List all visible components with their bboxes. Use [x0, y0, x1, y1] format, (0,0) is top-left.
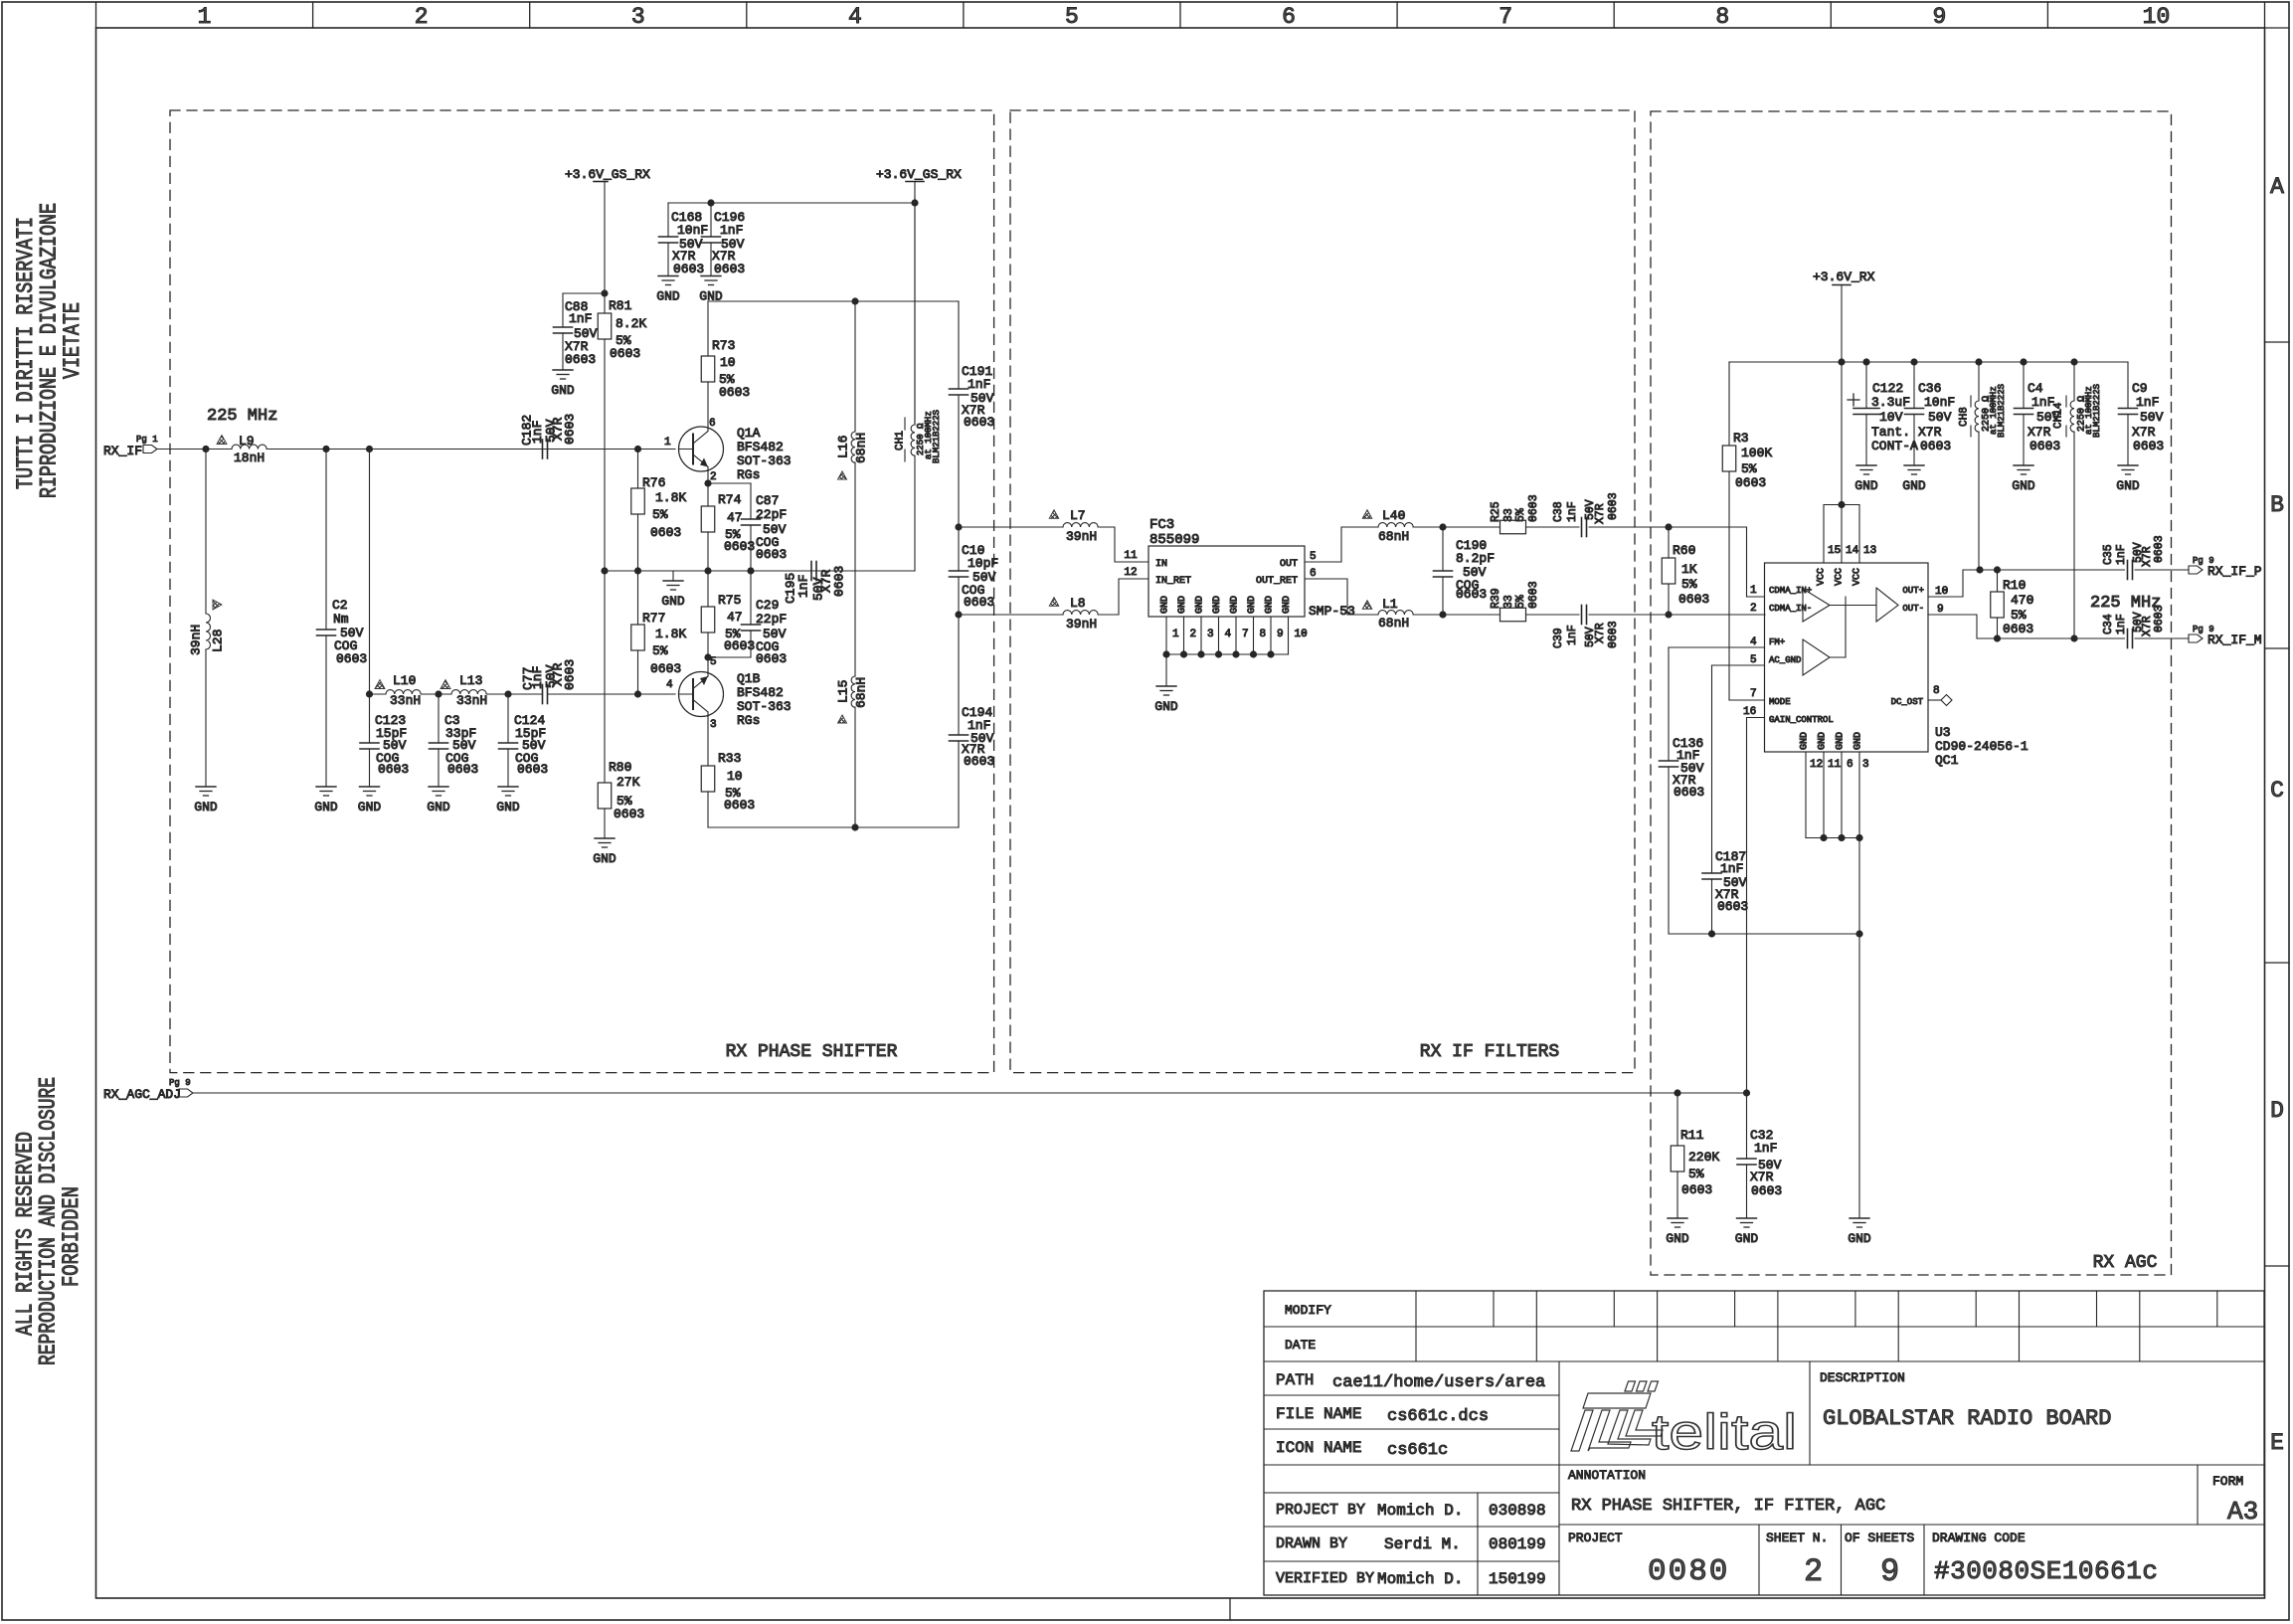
- svg-text:0603: 0603: [1678, 592, 1709, 607]
- capacitor C3: [430, 694, 479, 787]
- svg-text:0603: 0603: [2153, 605, 2166, 632]
- svg-text:0603: 0603: [565, 352, 596, 367]
- svg-text:RX_AGC_ADJ: RX_AGC_ADJ: [103, 1087, 181, 1102]
- capacitor C4: [2015, 362, 2061, 465]
- inductor L13: [441, 673, 487, 708]
- svg-text:6: 6: [1847, 759, 1853, 771]
- inductor L1: [1362, 597, 1413, 631]
- svg-text:1nF: 1nF: [2031, 395, 2054, 410]
- svg-text:BLM21B222S: BLM21B222S: [932, 410, 942, 463]
- svg-text:X7R: X7R: [2132, 425, 2156, 440]
- svg-text:GND: GND: [2116, 478, 2140, 493]
- capacitor C190: [1434, 527, 1496, 615]
- svg-text:0603: 0603: [1527, 494, 1540, 522]
- row letters: [2270, 174, 2284, 1456]
- svg-text:PROJECT BY: PROJECT BY: [1276, 1502, 1365, 1519]
- svg-text:8: 8: [1715, 4, 1729, 30]
- svg-text:0603: 0603: [517, 762, 548, 777]
- svg-text:68nH: 68nH: [853, 677, 868, 708]
- wire U3 pin4 FM+: [1669, 636, 1765, 648]
- svg-text:RX AGC: RX AGC: [2093, 1253, 2158, 1273]
- svg-text:Serdi M.: Serdi M.: [1384, 1535, 1461, 1553]
- op-amp U3: [1765, 563, 1929, 752]
- svg-text:0603: 0603: [831, 566, 846, 597]
- svg-text:RX_IF_P: RX_IF_P: [2207, 564, 2262, 579]
- svg-text:OF SHEETS: OF SHEETS: [1845, 1531, 1914, 1545]
- svg-text:A3: A3: [2227, 1497, 2258, 1527]
- capacitor C194: [950, 615, 995, 827]
- svg-text:68nH: 68nH: [1378, 529, 1409, 544]
- svg-text:33nH: 33nH: [456, 693, 487, 708]
- ferrite bead CH1: [895, 197, 942, 571]
- svg-text:GND: GND: [1247, 596, 1258, 614]
- capacitor C122: [1848, 362, 1918, 465]
- svg-text:5: 5: [1065, 4, 1079, 30]
- svg-text:27K: 27K: [617, 775, 640, 790]
- wire VCC bracket: [1824, 362, 1876, 563]
- svg-text:10: 10: [727, 769, 743, 784]
- ground C124: [496, 787, 520, 814]
- inductor L28: [188, 450, 225, 788]
- svg-text:220K: 220K: [1688, 1150, 1719, 1165]
- resistor R3: [1722, 362, 1772, 700]
- svg-text:1nF: 1nF: [968, 377, 990, 392]
- svg-text:10nF: 10nF: [1924, 395, 1955, 410]
- resistor R73: [701, 338, 750, 427]
- svg-text:ANNOTATION: ANNOTATION: [1568, 1468, 1646, 1483]
- svg-text:GND: GND: [496, 800, 520, 814]
- svg-text:CH14: CH14: [2053, 402, 2065, 429]
- RX PHASE SHIFTER dashed box: [170, 110, 994, 1073]
- ferrite bead CH14: [2053, 362, 2102, 638]
- svg-text:1K: 1K: [1681, 562, 1697, 577]
- inductor L7: [1049, 508, 1098, 544]
- svg-text:BFS482: BFS482: [737, 440, 784, 454]
- svg-text:0603: 0603: [1735, 475, 1766, 490]
- transistor Q1A: [664, 418, 792, 483]
- capacitor C34 series: [2102, 605, 2189, 647]
- svg-text:DC_OST: DC_OST: [1891, 697, 1924, 707]
- svg-text:+3.6V_GS_RX: +3.6V_GS_RX: [565, 167, 650, 182]
- svg-text:L1: L1: [1382, 597, 1398, 612]
- svg-text:GND: GND: [1264, 596, 1275, 614]
- svg-text:C9: C9: [2132, 381, 2148, 396]
- svg-text:225 MHz: 225 MHz: [2090, 594, 2161, 613]
- svg-text:7: 7: [1242, 629, 1249, 640]
- svg-text:GND: GND: [1835, 732, 1846, 750]
- svg-text:RGs: RGs: [737, 713, 760, 728]
- svg-text:RGs: RGs: [737, 467, 760, 482]
- svg-text:A: A: [2270, 174, 2284, 200]
- svg-text:BLM21B222S: BLM21B222S: [1997, 384, 2007, 438]
- svg-text:REPRODUCTION AND DISCLOSURE: REPRODUCTION AND DISCLOSURE: [36, 1077, 62, 1365]
- svg-text:R77: R77: [642, 611, 665, 626]
- svg-text:C: C: [2270, 778, 2284, 804]
- capacitor C124: [499, 694, 549, 787]
- svg-text:1: 1: [1750, 585, 1757, 597]
- ground mid node: [661, 571, 685, 609]
- svg-text:C34: C34: [2102, 614, 2115, 634]
- svg-text:1nF: 1nF: [2115, 544, 2128, 565]
- capacitor C87: [708, 483, 787, 571]
- svg-text:GND: GND: [1154, 699, 1178, 714]
- svg-text:5%: 5%: [2011, 608, 2027, 623]
- svg-text:FM+: FM+: [1769, 637, 1785, 647]
- svg-text:470: 470: [2011, 593, 2033, 608]
- capacitor C88: [554, 293, 606, 370]
- resistor R39: [1490, 581, 1579, 621]
- svg-text:5%: 5%: [1741, 461, 1757, 476]
- inductor L16: [835, 301, 868, 571]
- svg-text:5%: 5%: [1514, 508, 1527, 522]
- svg-text:OUT+: OUT+: [1902, 586, 1924, 596]
- ground C4: [2012, 465, 2035, 493]
- svg-text:cae11/home/users/area: cae11/home/users/area: [1332, 1373, 1545, 1392]
- inductor L40: [1362, 508, 1413, 544]
- ground R80: [593, 838, 617, 866]
- svg-text:GND: GND: [1735, 1231, 1759, 1246]
- capacitor C36: [1905, 362, 1956, 465]
- svg-text:IN: IN: [1155, 559, 1167, 570]
- connector RX_IF_M: [2189, 625, 2262, 647]
- wire RX_AGC_ADJ: [193, 1089, 1750, 1096]
- svg-text:CH1: CH1: [895, 431, 907, 451]
- svg-text:12: 12: [1124, 567, 1137, 579]
- ground C123: [358, 787, 382, 814]
- svg-text:BLM21B222S: BLM21B222S: [2092, 384, 2102, 438]
- svg-text:0603: 0603: [2133, 439, 2164, 453]
- svg-text:D: D: [2270, 1098, 2284, 1124]
- svg-text:11: 11: [1124, 550, 1138, 562]
- svg-text:0603: 0603: [562, 659, 577, 690]
- title block grid: [1264, 1291, 2264, 1595]
- connector RX_AGC_ADJ: [103, 1078, 193, 1102]
- svg-text:10: 10: [2143, 4, 2171, 30]
- ground FC3: [1154, 654, 1178, 714]
- svg-text:1: 1: [1172, 629, 1179, 640]
- svg-text:L13: L13: [459, 673, 482, 688]
- svg-text:5: 5: [1310, 551, 1317, 563]
- power +3.6V_GS_RX right: [876, 167, 962, 425]
- IF filter FC3: [1148, 517, 1305, 617]
- svg-text:3: 3: [710, 719, 717, 731]
- transistor Q1B: [666, 653, 792, 731]
- ground U3: [1848, 1218, 1871, 1246]
- svg-text:FILE NAME: FILE NAME: [1276, 1405, 1361, 1423]
- net label 225 MHz: [207, 407, 277, 426]
- capacitor C2: [317, 450, 368, 788]
- svg-text:15: 15: [1828, 545, 1841, 557]
- svg-text:0603: 0603: [1681, 1182, 1712, 1197]
- svg-text:U3: U3: [1935, 725, 1951, 740]
- RX AGC dashed box: [1651, 111, 2172, 1275]
- svg-text:0080: 0080: [1648, 1554, 1729, 1589]
- svg-text:5%: 5%: [652, 643, 668, 658]
- svg-text:ICON NAME: ICON NAME: [1276, 1439, 1361, 1457]
- svg-text:L10: L10: [393, 673, 416, 688]
- wire L40 to R25: [1413, 523, 1499, 530]
- svg-text:47: 47: [727, 510, 743, 525]
- svg-text:IN_RET: IN_RET: [1155, 576, 1191, 587]
- svg-text:2: 2: [1750, 603, 1757, 615]
- capacitor C182 series: [519, 414, 577, 458]
- svg-text:0603: 0603: [610, 346, 640, 361]
- U3 ground pins: [1799, 732, 1868, 934]
- svg-text:X7R: X7R: [1594, 503, 1607, 524]
- capacitor C32: [1737, 1093, 1782, 1218]
- svg-text:10V: 10V: [1879, 410, 1903, 425]
- svg-text:VIETATE: VIETATE: [60, 302, 86, 379]
- svg-text:R60: R60: [1673, 543, 1695, 558]
- svg-text:12: 12: [1810, 759, 1823, 771]
- svg-text:#30080SE10661c: #30080SE10661c: [1934, 1556, 2158, 1586]
- left copyright text english: [13, 1077, 86, 1365]
- resistor R75: [701, 571, 755, 657]
- svg-text:GND: GND: [1177, 596, 1188, 614]
- ground C36: [1902, 465, 1926, 493]
- svg-text:0603: 0603: [1527, 581, 1540, 609]
- power +3.6V_RX: [1813, 270, 1875, 362]
- svg-text:080199: 080199: [1489, 1535, 1546, 1553]
- svg-text:7: 7: [1750, 688, 1757, 700]
- svg-text:RX_IF_M: RX_IF_M: [2207, 632, 2262, 647]
- ground L28: [194, 787, 218, 814]
- capacitor C29: [708, 571, 787, 666]
- svg-text:CONT-A: CONT-A: [1871, 439, 1918, 453]
- svg-text:030898: 030898: [1489, 1502, 1546, 1520]
- wire collector rail: [708, 297, 959, 356]
- svg-text:33nH: 33nH: [390, 693, 421, 708]
- svg-text:R39: R39: [1490, 588, 1502, 609]
- svg-text:1nF: 1nF: [795, 575, 810, 598]
- svg-text:0603: 0603: [1751, 1183, 1782, 1198]
- svg-text:DESCRIPTION: DESCRIPTION: [1820, 1370, 1905, 1385]
- connector RX_IF_P: [2189, 556, 2262, 579]
- svg-text:R73: R73: [712, 338, 735, 353]
- svg-text:X7R: X7R: [1594, 623, 1607, 643]
- svg-text:0603: 0603: [378, 762, 409, 777]
- svg-text:R75: R75: [718, 593, 741, 608]
- svg-text:0603: 0603: [2029, 439, 2060, 453]
- svg-text:DRAWING CODE: DRAWING CODE: [1932, 1531, 2026, 1545]
- svg-text:cs661c.dcs: cs661c.dcs: [1387, 1407, 1489, 1426]
- capacitor C77 series: [520, 659, 577, 704]
- svg-text:4: 4: [848, 4, 862, 30]
- svg-text:0603: 0603: [1920, 439, 1951, 453]
- svg-text:MODE: MODE: [1769, 697, 1791, 707]
- svg-text:0603: 0603: [2153, 535, 2166, 563]
- capacitor C196: [702, 203, 746, 276]
- svg-text:5%: 5%: [1681, 577, 1697, 592]
- svg-text:Pg 9: Pg 9: [169, 1078, 191, 1088]
- resistor R25: [1490, 494, 1579, 533]
- wire U3 pin10 OUT+: [1928, 566, 2125, 598]
- svg-text:E: E: [2270, 1430, 2284, 1456]
- wire IF line M to L8: [959, 614, 1063, 616]
- column numbers: [198, 4, 2171, 30]
- svg-text:OUT_RET: OUT_RET: [1256, 576, 1298, 587]
- svg-text:FORBIDDEN: FORBIDDEN: [59, 1186, 85, 1287]
- svg-text:R3: R3: [1733, 431, 1749, 446]
- svg-text:CDMA_IN-: CDMA_IN-: [1769, 604, 1812, 614]
- svg-text:Nm: Nm: [333, 612, 349, 627]
- svg-text:0603: 0603: [964, 754, 994, 769]
- RX IF FILTERS dashed box: [1010, 110, 1635, 1073]
- svg-text:2: 2: [415, 4, 429, 30]
- capacitor C10: [950, 523, 999, 618]
- capacitor C168: [659, 203, 709, 276]
- svg-text:GND: GND: [656, 289, 680, 304]
- svg-text:C35: C35: [2102, 544, 2115, 565]
- svg-text:0603: 0603: [724, 798, 755, 812]
- svg-text:R10: R10: [2003, 578, 2026, 593]
- svg-text:GND: GND: [1902, 478, 1926, 493]
- svg-text:L28: L28: [210, 630, 225, 652]
- svg-text:Momich D.: Momich D.: [1377, 1570, 1463, 1588]
- ground C3: [427, 787, 450, 814]
- svg-text:VCC: VCC: [1852, 568, 1862, 586]
- svg-text:L16: L16: [835, 436, 850, 458]
- svg-text:1nF: 1nF: [2136, 395, 2159, 410]
- telital logo: [1571, 1381, 1663, 1451]
- ferrite bead CH8: [1959, 362, 2007, 570]
- svg-text:MODIFY: MODIFY: [1285, 1303, 1331, 1318]
- net label 225 MHz out: [2090, 594, 2161, 613]
- svg-text:0603: 0603: [2003, 622, 2033, 636]
- svg-text:GND: GND: [551, 383, 575, 398]
- svg-text:C122: C122: [1872, 381, 1903, 396]
- inductor L10: [375, 673, 421, 708]
- section label RX PHASE SHIFTER: [726, 1042, 898, 1062]
- svg-text:225 MHz: 225 MHz: [207, 407, 277, 426]
- svg-text:1.8K: 1.8K: [655, 490, 686, 505]
- svg-text:4: 4: [1750, 636, 1757, 648]
- svg-text:GND: GND: [1282, 596, 1293, 614]
- svg-text:0603: 0603: [719, 385, 750, 400]
- wire FC3 OUT: [1305, 527, 1378, 563]
- svg-text:DATE: DATE: [1285, 1338, 1316, 1353]
- svg-text:C38: C38: [1552, 501, 1565, 522]
- svg-text:GND: GND: [1666, 1231, 1689, 1246]
- svg-text:+3.6V_GS_RX: +3.6V_GS_RX: [876, 167, 962, 182]
- svg-text:TUTTI I DIRITTI RISERVATI: TUTTI I DIRITTI RISERVATI: [13, 217, 39, 489]
- inductor L15: [835, 571, 868, 827]
- svg-text:3: 3: [631, 4, 645, 30]
- svg-text:GLOBALSTAR RADIO BOARD: GLOBALSTAR RADIO BOARD: [1823, 1406, 2111, 1431]
- ground C196: [699, 276, 723, 304]
- wire to L10 row: [366, 450, 386, 698]
- FC3 ground pins: [1162, 617, 1307, 658]
- svg-text:X7R: X7R: [1918, 425, 1942, 440]
- svg-text:GAIN_CONTROL: GAIN_CONTROL: [1769, 715, 1834, 725]
- svg-text:telital: telital: [1652, 1404, 1797, 1460]
- capacitor C35 series: [2102, 535, 2189, 579]
- svg-text:11: 11: [1828, 759, 1842, 771]
- svg-text:GND: GND: [593, 851, 617, 866]
- svg-text:16: 16: [1743, 706, 1756, 718]
- svg-text:BFS482: BFS482: [737, 685, 784, 700]
- svg-text:22pF: 22pF: [756, 612, 787, 627]
- wire L8 to FC3 pin 12: [1098, 567, 1148, 615]
- resistor R10: [1991, 570, 2034, 638]
- U3 pin8 DC_OST diamond: [1928, 685, 1952, 706]
- svg-text:9: 9: [1880, 1553, 1899, 1590]
- svg-text:R80: R80: [609, 760, 631, 775]
- svg-text:7: 7: [1499, 4, 1512, 30]
- wire feedback bottom: [708, 823, 959, 830]
- svg-text:3: 3: [1207, 629, 1214, 640]
- svg-text:0603: 0603: [336, 651, 367, 666]
- svg-text:C4: C4: [2028, 381, 2043, 396]
- inductor L8: [1049, 596, 1098, 632]
- ground C32: [1735, 1218, 1759, 1246]
- section label RX IF FILTERS: [1420, 1042, 1559, 1062]
- ground C88: [551, 370, 575, 398]
- svg-text:GND: GND: [1817, 732, 1828, 750]
- wire top cap rail: [668, 199, 919, 206]
- svg-text:0603: 0603: [447, 762, 478, 777]
- resistor R60: [1662, 523, 1709, 618]
- svg-text:L15: L15: [835, 680, 850, 703]
- svg-text:B: B: [2270, 492, 2284, 518]
- svg-text:GND: GND: [1852, 732, 1863, 750]
- capacitor C38 series: [1552, 492, 1669, 536]
- svg-text:L8: L8: [1070, 596, 1086, 611]
- svg-text:0603: 0603: [1674, 785, 1704, 800]
- capacitor C136: [1660, 647, 1705, 934]
- svg-text:PROJECT: PROJECT: [1568, 1531, 1623, 1545]
- capacitor C191: [950, 301, 995, 527]
- svg-text:10: 10: [1295, 629, 1308, 640]
- svg-text:39nH: 39nH: [1066, 529, 1097, 544]
- svg-text:1nF: 1nF: [1566, 501, 1579, 522]
- resistor R76: [631, 450, 687, 572]
- svg-text:Q1A: Q1A: [737, 426, 761, 441]
- svg-text:18nH: 18nH: [234, 451, 265, 465]
- svg-text:0603: 0603: [1456, 587, 1487, 602]
- svg-text:+3.6V_RX: +3.6V_RX: [1813, 270, 1875, 284]
- svg-text:13: 13: [1863, 545, 1876, 557]
- svg-text:GND: GND: [1229, 596, 1240, 614]
- resistor R77: [631, 571, 687, 694]
- svg-text:5%: 5%: [652, 507, 668, 522]
- svg-text:50V: 50V: [1928, 410, 1952, 425]
- svg-text:0603: 0603: [673, 262, 704, 276]
- svg-text:2: 2: [1190, 629, 1197, 640]
- svg-text:L9: L9: [239, 434, 255, 449]
- svg-text:10pF: 10pF: [968, 556, 998, 571]
- svg-text:X7R: X7R: [1750, 1170, 1774, 1184]
- wire RX_IF input: [157, 449, 232, 451]
- svg-text:39nH: 39nH: [188, 625, 203, 655]
- svg-text:SHEET N.: SHEET N.: [1766, 1531, 1828, 1545]
- svg-text:GND: GND: [1848, 1231, 1871, 1246]
- svg-text:SOT-363: SOT-363: [737, 453, 792, 468]
- capacitor C9: [2119, 362, 2165, 465]
- svg-text:GND: GND: [1194, 596, 1205, 614]
- svg-text:5: 5: [1750, 654, 1757, 666]
- resistor R11: [1671, 1093, 1719, 1218]
- svg-text:L7: L7: [1070, 508, 1086, 523]
- svg-text:1: 1: [198, 4, 212, 30]
- svg-text:PATH: PATH: [1276, 1371, 1314, 1389]
- connector RX_IF: [103, 435, 158, 458]
- svg-text:1nF: 1nF: [1754, 1141, 1777, 1156]
- title block texts: [1276, 1303, 2258, 1590]
- svg-text:150199: 150199: [1489, 1570, 1546, 1588]
- resistor R74: [701, 492, 755, 571]
- label SMP-53: [1309, 604, 1355, 619]
